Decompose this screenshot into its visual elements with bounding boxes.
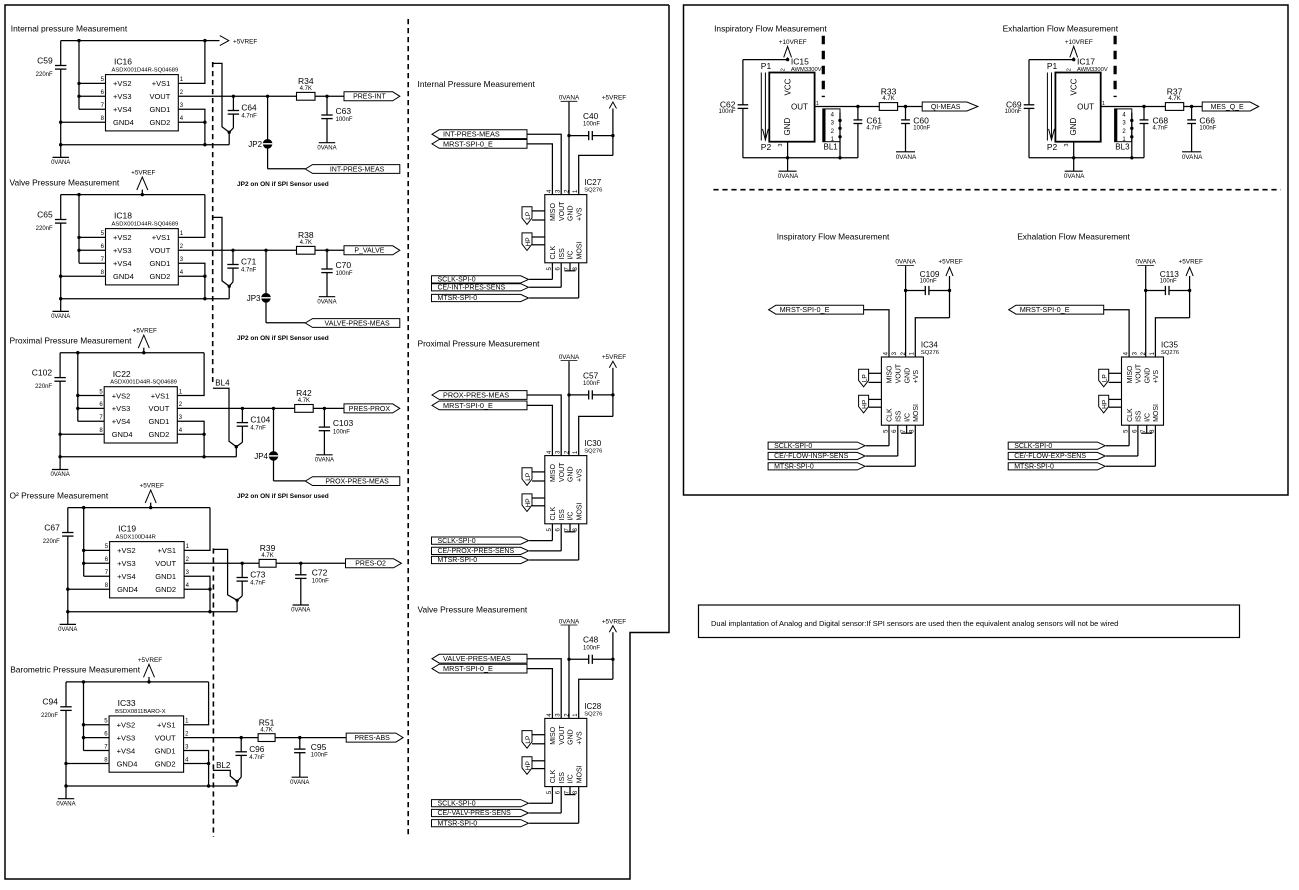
svg-text:+VS: +VS [1153, 370, 1160, 384]
svg-text:0VANA: 0VANA [1064, 173, 1085, 180]
wire +VS supply [1155, 318, 1189, 357]
svg-text:6: 6 [101, 90, 105, 96]
wire pin1 to +5VREF rail [184, 682, 209, 725]
wire +VS supply bus [82, 508, 85, 577]
svg-text:Proximal Pressure Measurement: Proximal Pressure Measurement [418, 338, 541, 348]
port LP [1099, 369, 1122, 387]
svg-text:CE/-PROX-PRES-SENS: CE/-PROX-PRES-SENS [438, 548, 515, 555]
svg-text:JP3: JP3 [247, 294, 261, 303]
svg-text:4.7nF: 4.7nF [249, 755, 265, 761]
svg-text:100nF: 100nF [1199, 125, 1216, 131]
svg-text:Inspiratory Flow Measurement: Inspiratory Flow Measurement [714, 24, 827, 34]
net flag VALVE-PRES-MEAS [266, 319, 400, 328]
svg-text:P1: P1 [761, 61, 772, 71]
svg-text:C65: C65 [37, 209, 53, 219]
svg-text:MOSI: MOSI [576, 765, 583, 783]
capacitor C109 100nF [906, 269, 950, 295]
capacitor C70 100nF [321, 250, 353, 296]
svg-text:AWM3300V: AWM3300V [791, 67, 822, 73]
svg-text:ISS: ISS [896, 410, 903, 422]
section title: Proximal Pressure Measurement [418, 338, 541, 348]
svg-text:6: 6 [104, 731, 108, 737]
ground 0VANA shunt [317, 297, 336, 306]
wire pin1 to +5VREF rail [177, 353, 204, 396]
svg-text:4.7K: 4.7K [882, 96, 894, 102]
svg-text:1: 1 [180, 77, 184, 83]
svg-text:4: 4 [186, 583, 190, 589]
wire to VOUT pin [527, 659, 561, 719]
svg-text:3: 3 [180, 257, 184, 263]
wire pin6 [84, 562, 110, 564]
svg-text:3: 3 [892, 351, 898, 355]
pressure sensor IC33 BSDX0811BARO-X [104, 698, 189, 772]
svg-text:0VANA: 0VANA [51, 160, 70, 166]
+10VREF power arrow [779, 39, 807, 61]
wire pin8 [68, 588, 110, 590]
resistor R34 4.7K [297, 76, 316, 100]
wire top rail [743, 59, 788, 61]
svg-text:3: 3 [179, 415, 183, 421]
net flag SCLK-SPI-0 [432, 263, 553, 284]
section title: Proximal Pressure Measurement [10, 335, 133, 345]
flow sensor IC17 AWM3300V [1055, 57, 1107, 147]
svg-text:100nF: 100nF [311, 753, 328, 759]
svg-text:BL1: BL1 [824, 142, 839, 151]
svg-text:0VANA: 0VANA [317, 299, 336, 305]
capacitor C113 100nF [1146, 269, 1190, 295]
svg-text:IC18: IC18 [114, 211, 132, 221]
section title: Barometric Pressure Measurement [10, 665, 141, 675]
ground 0VANA [58, 624, 77, 633]
jumper JP3 [247, 250, 271, 322]
svg-text:IC19: IC19 [118, 524, 136, 534]
svg-text:ASDX100D44R: ASDX100D44R [116, 535, 156, 541]
svg-text:VCC: VCC [783, 78, 792, 95]
wire 0VANA stem to GND pin [567, 361, 570, 456]
svg-text:GND2: GND2 [155, 759, 176, 768]
svg-text:PROX-PRES-MEAS: PROX-PRES-MEAS [325, 479, 389, 486]
net flag SCLK-SPI-0 [432, 524, 553, 545]
svg-text:+5VREF: +5VREF [138, 657, 162, 664]
capacitor C103 100nF [319, 408, 354, 454]
ferrite block BL1 [823, 109, 842, 158]
svg-text:JP2 on ON if SPI Sensor used: JP2 on ON if SPI Sensor used [237, 335, 329, 342]
svg-text:C66: C66 [1199, 115, 1215, 125]
svg-text:4: 4 [185, 757, 189, 763]
svg-text:100nF: 100nF [718, 109, 735, 115]
svg-text:C69: C69 [1006, 99, 1022, 109]
power 0VANA net label [1135, 259, 1156, 266]
svg-text:0VANA: 0VANA [58, 627, 77, 633]
svg-text:0VANA: 0VANA [895, 259, 916, 266]
wire pin7 [79, 262, 106, 264]
port HP [522, 233, 545, 251]
resistor R51 4.7K [258, 717, 275, 741]
wire +VS supply bus [77, 195, 80, 264]
svg-text:4.7nF: 4.7nF [1153, 125, 1169, 131]
resistor R38 4.7K [297, 230, 316, 254]
wire to MISO pin [1104, 310, 1129, 357]
svg-text:C113: C113 [1160, 269, 1180, 279]
net flag PROX-PRES-MEAS [432, 390, 527, 399]
svg-text:INT-PRES-MEAS: INT-PRES-MEAS [330, 166, 385, 173]
svg-text:VOUT: VOUT [559, 201, 566, 221]
svg-text:MISO: MISO [1127, 365, 1134, 383]
pressure sensor IC18 ASDX001D44R-SQ04689 [101, 211, 184, 285]
note box [699, 605, 1240, 638]
svg-text:+VS2: +VS2 [113, 233, 132, 242]
capacitor C40 100nF [569, 111, 613, 140]
svg-text:ASDX001D44R-SQ04689: ASDX001D44R-SQ04689 [110, 380, 177, 386]
svg-text:1: 1 [186, 544, 190, 550]
svg-text:CLK: CLK [550, 246, 557, 260]
section title: O² Pressure Measurement [10, 490, 109, 500]
net flag INT-PRES-MEAS [432, 130, 527, 139]
ground 0VANA [778, 158, 799, 180]
wire pin6 [78, 407, 104, 409]
wire +5VREF rail [61, 193, 205, 196]
svg-text:+VS4: +VS4 [113, 259, 132, 268]
wire to MISO pin [527, 144, 552, 195]
net flag SCLK-SPI-0 [768, 425, 889, 450]
svg-text:BL3: BL3 [1115, 142, 1130, 151]
net flag PROX-PRES-MEAS [274, 477, 400, 486]
wire +5VREF rail [60, 351, 204, 354]
svg-text:+VS4: +VS4 [112, 417, 131, 426]
svg-text:+VS4: +VS4 [113, 105, 132, 114]
wire pin5 [84, 549, 110, 551]
svg-text:C57: C57 [583, 370, 599, 380]
net flag P_VALVE [344, 246, 400, 255]
wire OUT net [815, 105, 923, 108]
svg-text:4.7nF: 4.7nF [241, 114, 257, 120]
capacitor C71 4.7nF [227, 250, 256, 286]
capacitor C48 100nF [569, 635, 613, 664]
svg-text:0VANA: 0VANA [1182, 154, 1203, 161]
svg-text:MRST-SPI-0_E: MRST-SPI-0_E [443, 139, 493, 148]
svg-text:C70: C70 [336, 260, 352, 270]
svg-text:LP: LP [525, 473, 532, 481]
svg-text:CLK: CLK [550, 769, 557, 783]
svg-text:SCLK-SPI-0: SCLK-SPI-0 [438, 800, 476, 807]
section title: Exhalation Flow Measurement [1017, 232, 1130, 242]
svg-text:0VANA: 0VANA [51, 314, 70, 320]
svg-text:C63: C63 [336, 106, 352, 116]
svg-text:8: 8 [101, 116, 105, 122]
svg-text:MES_Q_E: MES_Q_E [1211, 104, 1244, 111]
svg-text:GND2: GND2 [155, 585, 176, 594]
svg-text:Valve Pressure Measurement: Valve Pressure Measurement [418, 605, 528, 615]
svg-text:GND4: GND4 [113, 118, 134, 127]
wire +VS supply [579, 155, 613, 194]
svg-text:MRST-SPI-0_E: MRST-SPI-0_E [1020, 305, 1070, 314]
capacitor C63 100nF [321, 96, 353, 142]
svg-text:1: 1 [185, 719, 189, 725]
svg-text:P2: P2 [761, 142, 772, 152]
svg-text:4.7nF: 4.7nF [250, 426, 266, 432]
wire +VS supply [579, 679, 613, 718]
shield link wire [213, 217, 229, 286]
wire VOUT net [177, 407, 344, 410]
svg-text:MRST-SPI-0_E: MRST-SPI-0_E [443, 401, 493, 410]
svg-text:I/C: I/C [1144, 413, 1151, 422]
svg-text:220nF: 220nF [36, 72, 53, 78]
svg-text:IC35: IC35 [1161, 340, 1178, 349]
wire analog ground stem [59, 121, 62, 158]
svg-text:GND: GND [1069, 118, 1078, 136]
svg-text:VOUT: VOUT [559, 462, 566, 482]
svg-text:ISS: ISS [559, 772, 566, 784]
ground 0VANA shunt [291, 605, 310, 614]
svg-text:+10VREF: +10VREF [1065, 39, 1093, 46]
svg-text:C103: C103 [333, 418, 354, 428]
svg-text:+5VREF: +5VREF [602, 354, 626, 361]
port LP [522, 207, 545, 225]
wire pin1 to +5VREF rail [178, 195, 205, 238]
svg-text:I/C: I/C [568, 512, 575, 521]
svg-text:+VS2: +VS2 [117, 721, 136, 730]
wire bottom rail [1029, 156, 1144, 159]
svg-text:2: 2 [179, 402, 183, 408]
svg-text:MOSI: MOSI [576, 242, 583, 260]
note JP2 [237, 181, 329, 188]
svg-text:PROX-PRES-MEAS: PROX-PRES-MEAS [443, 390, 509, 399]
ground 0VANA [56, 799, 75, 808]
capacitor C60 100nF [901, 107, 931, 152]
svg-text:MTSR-SPI-0: MTSR-SPI-0 [774, 464, 814, 471]
svg-text:C60: C60 [913, 115, 929, 125]
capacitor C96 4.7nF [236, 738, 265, 782]
wire +5VREF rail [66, 680, 209, 683]
svg-text:+VS1: +VS1 [158, 546, 177, 555]
net flag PRES-O2 [346, 559, 402, 568]
svg-text:Valve Pressure Measurement: Valve Pressure Measurement [10, 177, 120, 187]
svg-text:VOUT: VOUT [1136, 363, 1143, 383]
svg-text:R39: R39 [260, 543, 276, 553]
pin7 no-connect [901, 425, 912, 433]
svg-text:MOSI: MOSI [1153, 404, 1160, 422]
svg-text:+VS4: +VS4 [117, 572, 136, 581]
svg-text:VOUT: VOUT [896, 363, 903, 383]
capacitor C72 100nF [295, 563, 329, 605]
svg-text:100nF: 100nF [1005, 109, 1022, 115]
svg-text:VOUT: VOUT [559, 725, 566, 745]
svg-text:GND2: GND2 [149, 272, 170, 281]
svg-text:0VANA: 0VANA [896, 154, 917, 161]
svg-text:100nF: 100nF [920, 279, 937, 285]
svg-text:ISS: ISS [1136, 410, 1143, 422]
svg-text:P2: P2 [1047, 142, 1058, 152]
svg-text:3: 3 [1064, 144, 1070, 147]
ground 0VANA [51, 157, 70, 166]
svg-text:Internal pressure Measurement: Internal pressure Measurement [11, 23, 128, 33]
svg-text:4.7K: 4.7K [300, 86, 312, 92]
svg-text:1: 1 [180, 231, 184, 237]
svg-text:CE/-INT-PRES-SENS: CE/-INT-PRES-SENS [438, 285, 506, 292]
svg-text:P_VALVE: P_VALVE [354, 248, 384, 255]
svg-text:BL2: BL2 [216, 761, 231, 770]
pin7 no-connect [565, 263, 576, 271]
net flag MES_Q_E [1202, 102, 1259, 111]
svg-text:CLK: CLK [887, 408, 894, 422]
svg-text:P1: P1 [1047, 61, 1058, 71]
svg-text:+VS3: +VS3 [117, 733, 136, 742]
svg-text:+VS3: +VS3 [117, 559, 136, 568]
svg-text:+VS2: +VS2 [112, 391, 131, 400]
wire pin1 to +5VREF rail [178, 41, 205, 84]
+5VREF power arrow [140, 483, 164, 510]
svg-text:GND1: GND1 [155, 572, 176, 581]
svg-text:100nF: 100nF [1160, 279, 1177, 285]
ferrite link BL4 [213, 379, 236, 447]
svg-text:Dual implantation of Analog an: Dual implantation of Analog and Digital … [711, 619, 1118, 628]
svg-text:C62: C62 [720, 99, 736, 109]
svg-text:8: 8 [105, 583, 109, 589]
svg-text:100nF: 100nF [913, 125, 930, 131]
svg-text:Barometric Pressure Measuremen: Barometric Pressure Measurement [10, 665, 141, 675]
svg-text:SQ276: SQ276 [584, 449, 602, 455]
svg-text:220nF: 220nF [35, 384, 52, 390]
svg-text:OUT: OUT [791, 103, 808, 112]
svg-text:2: 2 [1122, 129, 1126, 135]
svg-text:0VANA: 0VANA [559, 95, 580, 102]
svg-text:+VS4: +VS4 [117, 746, 136, 755]
section title: Valve Pressure Measurement [10, 177, 120, 187]
net flag MRST-SPI-0_E [769, 305, 864, 314]
net flag PRES-ABS [346, 733, 403, 742]
svg-text:4.7K: 4.7K [261, 553, 273, 559]
svg-text:3: 3 [180, 103, 184, 109]
svg-text:MISO: MISO [550, 726, 557, 744]
pin7 no-connect [565, 787, 576, 795]
wire pin8 [61, 275, 106, 277]
svg-text:ISS: ISS [559, 248, 566, 260]
svg-text:4: 4 [179, 428, 183, 434]
svg-text:Exhalartion Flow Measurement: Exhalartion Flow Measurement [1003, 24, 1119, 34]
svg-text:LP: LP [525, 736, 532, 744]
port HP [1099, 395, 1122, 413]
svg-text:JP2 on ON if SPI Sensor used: JP2 on ON if SPI Sensor used [237, 493, 329, 500]
net flag MTSR-SPI-0 [432, 263, 579, 302]
svg-text:2: 2 [831, 129, 835, 135]
svg-text:+VS1: +VS1 [152, 233, 171, 242]
right sheet border [684, 5, 1289, 495]
svg-text:Exhalation Flow Measurement: Exhalation Flow Measurement [1017, 232, 1130, 242]
svg-text:BL4: BL4 [215, 379, 230, 388]
svg-text:1: 1 [179, 389, 183, 395]
wire pin6 [79, 95, 106, 97]
pressure sensor IC22 ASDX001D44R-SQ04689 [99, 369, 182, 443]
wire pin5 [78, 395, 104, 397]
capacitor C65 220nF [36, 195, 67, 277]
svg-text:4.7K: 4.7K [298, 398, 310, 404]
svg-text:3: 3 [185, 744, 189, 750]
svg-text:100nF: 100nF [583, 381, 600, 387]
svg-text:MOSI: MOSI [913, 404, 920, 422]
capacitor C95 100nF [294, 738, 328, 778]
svg-text:8: 8 [99, 428, 103, 434]
svg-text:C95: C95 [311, 742, 327, 752]
section title: Internal Pressure Measurement [418, 79, 536, 89]
svg-text:IC34: IC34 [921, 340, 938, 349]
wire pin7 [79, 108, 106, 110]
svg-text:GND: GND [568, 205, 575, 221]
svg-text:+5VREF: +5VREF [233, 39, 257, 46]
svg-text:6: 6 [99, 402, 103, 408]
wire pin3 pin4 to ground [178, 263, 206, 300]
wire pin6 [84, 737, 110, 739]
svg-text:SQ276: SQ276 [1161, 350, 1179, 356]
power 0VANA net label [559, 618, 580, 625]
wire VOUT net [184, 736, 347, 739]
svg-text:C40: C40 [583, 111, 599, 121]
ground 0VANA shunt [317, 143, 336, 152]
svg-text:CLK: CLK [550, 507, 557, 521]
svg-text:O² Pressure Measurement: O² Pressure Measurement [10, 490, 109, 500]
wire pin3 pin4 to ground [184, 576, 212, 613]
net flag CE/-VALV-PRES-SENS [432, 787, 562, 818]
wire to MISO pin [864, 310, 889, 357]
svg-text:+VS3: +VS3 [112, 404, 131, 413]
svg-text:+10VREF: +10VREF [779, 39, 807, 46]
wire pin8 [66, 763, 109, 765]
ground 0VANA shunt [290, 777, 309, 786]
svg-text:MOSI: MOSI [576, 503, 583, 521]
port HP [859, 395, 882, 413]
svg-text:+5VREF: +5VREF [133, 328, 157, 335]
net flag VALVE-PRES-MEAS [432, 654, 527, 663]
wire ground rail [66, 780, 239, 786]
svg-text:7: 7 [104, 744, 108, 750]
svg-text:Internal Pressure Measurement: Internal Pressure Measurement [418, 79, 536, 89]
ground 0VANA [50, 470, 69, 479]
resistor R42 4.7K [295, 388, 314, 412]
svg-text:0VANA: 0VANA [559, 618, 580, 625]
net flag MRST-SPI-0_E [432, 664, 527, 673]
svg-text:SQ276: SQ276 [921, 350, 939, 356]
net flag QI-MEAS [922, 102, 978, 111]
note JP2 [237, 493, 329, 500]
wire pin7 [78, 420, 104, 422]
section title: Exhalartion Flow Measurement [1003, 24, 1119, 34]
wire pin3 pin4 to ground [177, 421, 206, 458]
net flag PRES-PROX [344, 404, 400, 413]
+5VREF power arrow [938, 259, 962, 318]
svg-text:MTSR-SPI-0: MTSR-SPI-0 [438, 820, 478, 827]
net flag CE/-FLOW-EXP-SENS [1008, 425, 1138, 460]
wire ground rail [60, 445, 238, 457]
wire +5VREF rail [68, 506, 210, 509]
capacitor C59 220nF [36, 41, 67, 123]
svg-text:5: 5 [104, 719, 108, 725]
svg-text:2: 2 [780, 68, 786, 71]
svg-text:R42: R42 [296, 388, 312, 398]
svg-text:HP: HP [525, 498, 532, 507]
svg-text:SCLK-SPI-0: SCLK-SPI-0 [774, 443, 812, 450]
wire pin5 [79, 236, 106, 238]
svg-text:HP: HP [525, 761, 532, 770]
svg-text:+VS1: +VS1 [151, 391, 170, 400]
svg-text:Inspiratory Flow Measurement: Inspiratory Flow Measurement [777, 232, 890, 242]
svg-text:3: 3 [1132, 351, 1138, 355]
svg-text:5: 5 [105, 544, 109, 550]
capacitor C67 220nF [43, 508, 74, 590]
svg-text:C73: C73 [250, 570, 266, 580]
wire +VS supply [915, 318, 949, 357]
svg-text:+5VREF: +5VREF [602, 618, 626, 625]
wire pin8 [61, 121, 106, 123]
svg-text:GND1: GND1 [155, 746, 176, 755]
